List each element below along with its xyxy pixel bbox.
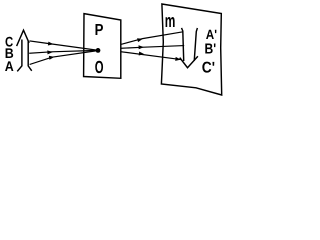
arrowhead on ray to A' [137,37,143,42]
svg-text:m: m [165,10,176,31]
screen m (parallelogram) [161,4,221,95]
arrowhead on ray to C' [139,52,145,57]
svg-text:C': C' [202,59,215,76]
object arrow (vertical, pointing up) [17,30,31,71]
wire ray from B to pinhole [30,50,97,53]
wire ray from O to B' [122,46,184,49]
wire ray from O to C' [122,52,181,60]
pinhole O dot [96,48,101,53]
svg-text:P: P [95,22,104,39]
arrowhead at end of ray to C' [175,57,181,62]
arrowhead on ray A [49,55,55,60]
wire ray from A to pinhole [30,51,97,65]
arrowhead on ray B [47,50,53,54]
screen P (parallelogram) [84,14,121,79]
wire ray from O to A' [122,32,183,44]
wire ray from C to pinhole [30,41,97,50]
arrowhead on ray to B' [139,45,145,49]
svg-text:A: A [5,58,14,74]
arrowhead on ray C [48,42,54,47]
svg-text:O: O [95,57,104,77]
image arrow (vertical, pointing down) [180,29,197,68]
svg-text:A': A' [206,27,217,42]
svg-text:B': B' [205,41,217,57]
